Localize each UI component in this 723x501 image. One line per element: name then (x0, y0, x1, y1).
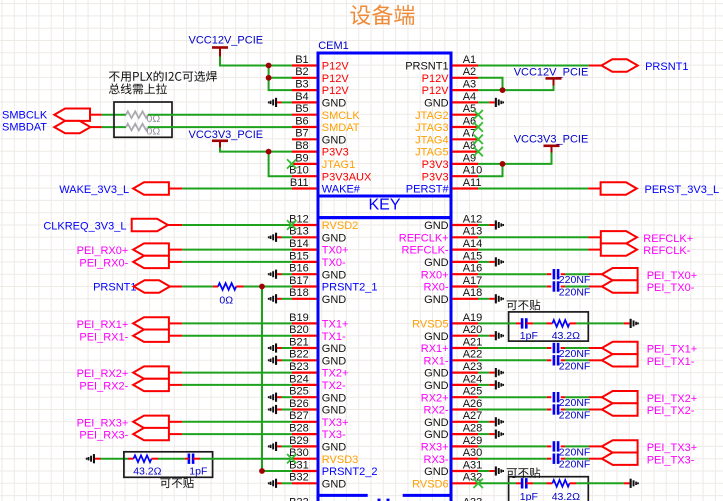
svg-text:PEI_RX3-: PEI_RX3- (79, 430, 128, 442)
pin A23 (GND) (424, 361, 482, 380)
capacitor 220NF (RX2+) (554, 392, 590, 409)
svg-text:PRSNT1: PRSNT1 (93, 282, 136, 294)
svg-text:B10: B10 (289, 165, 309, 177)
wire (570, 322, 577, 324)
svg-text:B33: B33 (289, 496, 309, 501)
wire (128, 458, 134, 460)
svg-text:GND: GND (424, 466, 449, 478)
svg-text:PERST#: PERST# (406, 184, 450, 196)
svg-text:GND: GND (322, 98, 347, 110)
wire (182, 224, 292, 226)
port PEI_RX0+ (77, 243, 169, 257)
svg-text:TX2+: TX2+ (322, 368, 349, 380)
wire (269, 152, 292, 177)
wire (589, 458, 602, 460)
pin B22 (GND) (289, 349, 346, 368)
pin A8 (JTAG5) (415, 140, 478, 159)
svg-text:B15: B15 (289, 250, 309, 262)
wire (561, 347, 565, 349)
svg-text:RX3+: RX3+ (421, 442, 449, 454)
wire (589, 65, 602, 67)
wire (547, 482, 553, 484)
wire (589, 445, 602, 447)
svg-text:PRSNT2_2: PRSNT2_2 (322, 466, 378, 478)
capacitor 1pF (A19) (520, 318, 538, 342)
svg-text:A8: A8 (463, 140, 476, 152)
svg-text:B18: B18 (289, 287, 309, 299)
wire (152, 458, 159, 460)
svg-text:TX0+: TX0+ (322, 245, 349, 257)
port PEI_RX1+ (77, 317, 169, 331)
ground (pin A15) (478, 257, 504, 266)
pin B7 (GND) (292, 128, 346, 147)
svg-text:GND: GND (424, 331, 449, 343)
no-ERC marker (B12) (287, 220, 296, 229)
svg-text:PEI_RX3+: PEI_RX3+ (77, 417, 129, 429)
svg-text:A30: A30 (463, 447, 483, 459)
wire (533, 322, 547, 324)
wire (561, 359, 565, 361)
resistor 43.2Ω (B30) (133, 455, 161, 477)
pin B14 (TX0+) (289, 238, 348, 257)
svg-text:B26: B26 (289, 398, 309, 410)
svg-text:A14: A14 (463, 238, 483, 250)
capacitor 220NF (RX1-) (554, 355, 590, 372)
svg-text:GND: GND (322, 294, 347, 306)
port PEI_RX1- (79, 330, 169, 344)
svg-text:B5: B5 (295, 103, 308, 115)
wire (547, 322, 553, 324)
wire (169, 261, 182, 263)
wire (565, 396, 589, 398)
svg-text:A19: A19 (463, 312, 483, 324)
capacitor 220NF (RX0+) (554, 269, 590, 286)
svg-text:B27: B27 (289, 410, 309, 422)
wire (547, 409, 551, 411)
wire (478, 322, 516, 324)
svg-text:A28: A28 (463, 423, 483, 435)
wire (478, 396, 547, 398)
wire (478, 78, 554, 90)
svg-text:B1: B1 (295, 54, 308, 66)
connector CEM1 section 1 body (318, 53, 451, 196)
wire (478, 482, 516, 484)
annotation 可不贴 (A19) (507, 300, 540, 311)
pin A6 (JTAG3) (415, 115, 478, 134)
pin B27 (TX3+) (289, 410, 348, 429)
pin A31 (GND) (424, 459, 482, 478)
svg-text:B11: B11 (290, 177, 309, 189)
svg-text:B25: B25 (289, 386, 309, 398)
no-ERC marker (A8) (474, 147, 483, 156)
pin A5 (JTAG2) (415, 103, 478, 122)
pin B28 (TX3-) (289, 423, 346, 442)
svg-text:RVSD6: RVSD6 (412, 478, 448, 490)
svg-text:RX1-: RX1- (424, 355, 449, 367)
svg-text:43.2Ω: 43.2Ω (552, 491, 580, 501)
pin A14 (REFCLK-) (402, 238, 483, 257)
wire (527, 322, 534, 324)
svg-text:A17: A17 (463, 275, 483, 287)
power port VCC3V3_PCIE (left) (189, 129, 264, 147)
port PEI_TX2- (602, 403, 695, 417)
port WAKE_3V3_L (59, 182, 169, 196)
svg-text:B8: B8 (295, 140, 308, 152)
ground (pin A4) (478, 98, 504, 107)
svg-text:RVSD3: RVSD3 (322, 454, 358, 466)
wire (185, 458, 189, 460)
annotation 总线需上拉 (109, 83, 167, 94)
svg-text:220NF: 220NF (559, 446, 591, 458)
annotation 不用PLX的I2C可选焊 (109, 71, 217, 82)
svg-text:A5: A5 (463, 103, 476, 115)
ground (pin A27) (478, 417, 504, 426)
wire (576, 322, 624, 324)
svg-text:A18: A18 (463, 287, 483, 299)
wire (182, 249, 292, 251)
no-ERC marker (B30) (287, 454, 296, 463)
pin B2 (P12V) (292, 66, 349, 85)
svg-text:P12V: P12V (422, 73, 450, 85)
svg-text:JTAG4: JTAG4 (415, 134, 448, 146)
svg-text:GND: GND (424, 368, 449, 380)
port PEI_RX2+ (77, 366, 169, 380)
svg-text:A27: A27 (463, 410, 483, 422)
ground (pin B16) (268, 270, 292, 279)
annotation box (A19 RC) (509, 312, 589, 341)
title 设备端 (350, 5, 414, 25)
wire (182, 286, 213, 288)
svg-text:PEI_TX2-: PEI_TX2- (647, 405, 695, 417)
svg-text:B19: B19 (289, 312, 309, 324)
ground (pin B32) (268, 479, 292, 488)
wire (193, 458, 200, 460)
svg-text:A13: A13 (463, 226, 483, 238)
svg-text:220NF: 220NF (559, 360, 591, 372)
svg-text:GND: GND (322, 134, 347, 146)
svg-text:VCC12V_PCIE: VCC12V_PCIE (514, 66, 589, 78)
pin B5 (SMCLK) (292, 103, 360, 122)
pin A25 (RX2+) (421, 386, 483, 405)
pin B4 (GND) (292, 91, 346, 110)
wire (547, 286, 551, 288)
wire (547, 347, 551, 349)
svg-text:A33: A33 (463, 496, 483, 501)
wire (565, 286, 589, 288)
svg-text:GND: GND (424, 294, 449, 306)
svg-text:RX2-: RX2- (424, 405, 449, 417)
ground (pin B21) (268, 343, 292, 352)
wire (478, 286, 547, 288)
svg-text:A9: A9 (463, 152, 476, 164)
wire (478, 249, 589, 251)
svg-text:B28: B28 (289, 423, 309, 435)
wire (589, 249, 601, 251)
junction (500, 87, 506, 93)
resistor 43.2Ω (A19) (552, 320, 580, 342)
wire (478, 409, 547, 411)
pin A21 (RX1+) (421, 336, 483, 355)
svg-text:B32: B32 (289, 472, 309, 484)
port SMBDAT (2, 121, 91, 134)
svg-text:A23: A23 (463, 361, 483, 373)
ground (pin A18) (478, 294, 504, 303)
port PEI_TX1- (602, 354, 695, 368)
svg-text:220NF: 220NF (559, 348, 591, 360)
pin A29 (RX3+) (421, 435, 483, 454)
ground (pin A28) (478, 430, 504, 439)
wire (589, 409, 602, 411)
svg-text:RX0+: RX0+ (421, 269, 449, 281)
pin B11 (WAKE#) (290, 177, 361, 196)
svg-text:B21: B21 (289, 336, 309, 348)
ground (pin A12) (478, 220, 504, 229)
svg-text:220NF: 220NF (559, 287, 591, 299)
wire (90, 114, 102, 116)
pin B12 (RVSD2) (289, 213, 358, 232)
no-ERC marker (A5) (474, 110, 483, 119)
connector KEY box (318, 196, 451, 218)
svg-text:VCC3V3_PCIE: VCC3V3_PCIE (189, 129, 264, 141)
ground (B30 RC) (86, 454, 101, 463)
wire (168, 224, 182, 226)
wire (213, 286, 218, 288)
wire (478, 163, 503, 165)
pin B31 (PRSNT2_2) (289, 459, 377, 478)
svg-text:PEI_TX0-: PEI_TX0- (647, 282, 695, 294)
power port VCC3V3_PCIE (right) (514, 133, 589, 152)
svg-text:B3: B3 (295, 79, 308, 91)
wire (269, 66, 292, 78)
svg-text:PEI_RX2+: PEI_RX2+ (77, 368, 129, 380)
pin A15 (GND) (424, 250, 482, 269)
svg-text:GND: GND (424, 220, 449, 232)
svg-text:B2: B2 (295, 66, 308, 78)
svg-text:PEI_TX3-: PEI_TX3- (647, 454, 695, 466)
svg-text:A25: A25 (463, 386, 483, 398)
svg-text:A22: A22 (463, 349, 483, 361)
svg-text:A26: A26 (463, 398, 483, 410)
pin A16 (RX0+) (421, 263, 483, 282)
port PRSNT1 (right) (602, 59, 689, 73)
svg-text:B16: B16 (289, 263, 309, 275)
wire (570, 482, 577, 484)
svg-text:A11: A11 (463, 177, 482, 189)
pin B13 (GND) (289, 226, 346, 245)
svg-text:PEI_RX1+: PEI_RX1+ (77, 319, 129, 331)
svg-text:A4: A4 (463, 91, 476, 103)
wire (170, 286, 182, 288)
port PEI_RX3- (79, 428, 169, 442)
pin B26 (GND) (289, 398, 346, 417)
svg-text:P3V3AUX: P3V3AUX (322, 171, 372, 183)
junction (500, 161, 506, 167)
pin B21 (GND) (289, 336, 346, 355)
pin B29 (GND) (289, 435, 346, 454)
svg-text:220NF: 220NF (559, 410, 591, 422)
port REFCLK- (601, 243, 691, 257)
capacitor 1pF (A32) (520, 478, 538, 501)
pin B32 (GND) (289, 472, 346, 491)
wire (182, 335, 292, 337)
port CLKREQ_3V3_L (43, 219, 168, 233)
ground (pin B22) (268, 356, 292, 365)
ground (pin A24) (478, 380, 504, 389)
no-ERC marker (A7) (474, 135, 483, 144)
wire (589, 347, 602, 349)
junction (266, 149, 272, 155)
capacitor 220NF (RX1+) (554, 343, 590, 360)
svg-text:RX0-: RX0- (424, 282, 449, 294)
svg-text:P12V: P12V (422, 85, 450, 97)
svg-text:B24: B24 (289, 373, 309, 385)
wire (148, 126, 292, 128)
capacitor 220NF (RX0-) (554, 281, 590, 298)
wire (182, 372, 292, 374)
wire (169, 335, 182, 337)
svg-text:B14: B14 (289, 238, 309, 250)
pin B25 (GND) (289, 386, 346, 405)
svg-text:REFCLK+: REFCLK+ (643, 233, 693, 245)
svg-text:RVSD5: RVSD5 (412, 319, 448, 331)
wire (169, 322, 182, 324)
wire (547, 359, 551, 361)
wire (565, 409, 589, 411)
wire (182, 261, 292, 263)
annotation 可不贴 (B30) (160, 478, 193, 489)
svg-text:CEM1: CEM1 (318, 40, 349, 52)
ground (pin B25) (268, 393, 292, 402)
wire (533, 482, 547, 484)
pin A11 (PERST#) (406, 177, 482, 196)
svg-text:A10: A10 (463, 165, 483, 177)
svg-text:REFCLK+: REFCLK+ (399, 232, 449, 244)
svg-text:TX3-: TX3- (322, 429, 346, 441)
svg-text:TX1-: TX1- (322, 331, 346, 343)
svg-text:REFCLK-: REFCLK- (402, 245, 449, 257)
wire (478, 164, 503, 176)
ground (pin B26) (268, 405, 292, 414)
junction (266, 75, 272, 81)
svg-text:B7: B7 (295, 128, 308, 140)
wire (561, 409, 565, 411)
wire (102, 126, 126, 128)
wire (102, 114, 126, 116)
wire (169, 384, 182, 386)
svg-text:REFCLK-: REFCLK- (643, 245, 690, 257)
svg-text:1pF: 1pF (520, 330, 538, 342)
svg-text:RX2+: RX2+ (421, 392, 449, 404)
svg-text:PERST_3V3_L: PERST_3V3_L (645, 184, 720, 196)
resistor 43.2Ω (A32) (552, 480, 580, 501)
svg-text:SMCLK: SMCLK (322, 110, 361, 122)
svg-text:A16: A16 (463, 263, 483, 275)
svg-text:P3V3: P3V3 (422, 171, 449, 183)
svg-text:RX3-: RX3- (424, 454, 449, 466)
svg-text:A24: A24 (463, 373, 483, 385)
svg-text:A12: A12 (463, 213, 483, 225)
ground (pin B18) (268, 294, 292, 303)
wire (516, 322, 522, 324)
svg-text:JTAG5: JTAG5 (415, 147, 448, 159)
wire (182, 188, 292, 190)
svg-text:A1: A1 (463, 54, 476, 66)
pin A26 (RX2-) (424, 398, 483, 417)
wire (182, 421, 292, 423)
capacitor 220NF (RX3+) (554, 441, 590, 458)
wire (478, 347, 547, 349)
svg-text:TX3+: TX3+ (322, 417, 349, 429)
port REFCLK+ (601, 231, 693, 245)
wire (503, 153, 552, 164)
wire (169, 433, 182, 435)
port PEI_TX0+ (602, 268, 697, 282)
pin B16 (GND) (289, 263, 346, 282)
capacitor 220NF (RX2-) (554, 404, 590, 421)
annotation box (pull-up resistors) (114, 102, 172, 137)
wire (561, 273, 565, 275)
svg-text:GND: GND (322, 478, 347, 490)
wire (589, 396, 602, 398)
pin A2 (P12V) (422, 66, 478, 85)
wire (561, 458, 565, 460)
ground (pin A31) (478, 466, 504, 475)
svg-text:RX1+: RX1+ (421, 343, 449, 355)
svg-text:SMBCLK: SMBCLK (2, 109, 48, 121)
svg-text:A21: A21 (463, 336, 483, 348)
pin B1 (P12V) (292, 54, 349, 73)
svg-text:B29: B29 (289, 435, 309, 447)
svg-text:PEI_RX2-: PEI_RX2- (79, 381, 128, 393)
svg-text:GND: GND (424, 257, 449, 269)
wire (561, 286, 565, 288)
svg-text:GND: GND (424, 98, 449, 110)
wire (527, 482, 534, 484)
svg-text:A29: A29 (463, 435, 483, 447)
pin A17 (RX0-) (424, 275, 483, 294)
wire (220, 57, 292, 66)
pin B8 (P3V3) (292, 140, 349, 159)
port PEI_TX3+ (602, 440, 697, 454)
wire (478, 273, 547, 275)
wire (169, 249, 182, 251)
svg-text:TX2-: TX2- (322, 380, 346, 392)
svg-text:KEY: KEY (368, 197, 400, 214)
pin A10 (P3V3) (422, 165, 483, 184)
wire (565, 347, 589, 349)
svg-text:GND: GND (322, 343, 347, 355)
svg-text:PRSNT2_1: PRSNT2_1 (322, 282, 378, 294)
port PERST_3V3_L (601, 182, 720, 196)
svg-text:1pF: 1pF (520, 491, 538, 501)
wire (565, 445, 589, 447)
port PEI_TX2+ (602, 391, 697, 405)
svg-text:B31: B31 (289, 459, 309, 471)
pin B15 (TX0-) (289, 250, 346, 269)
wire (589, 236, 601, 238)
svg-text:B6: B6 (295, 115, 308, 127)
svg-text:220NF: 220NF (559, 459, 591, 471)
pin A20 (GND) (424, 324, 482, 343)
svg-text:GND: GND (322, 355, 347, 367)
svg-text:CLKREQ_3V3_L: CLKREQ_3V3_L (43, 220, 126, 232)
svg-text:43.2Ω: 43.2Ω (552, 330, 580, 342)
wire (516, 482, 522, 484)
pin B20 (TX1-) (289, 324, 346, 343)
wire (236, 286, 243, 288)
svg-text:PRSNT1: PRSNT1 (405, 61, 448, 73)
pin B6 (SMDAT) (292, 115, 360, 134)
